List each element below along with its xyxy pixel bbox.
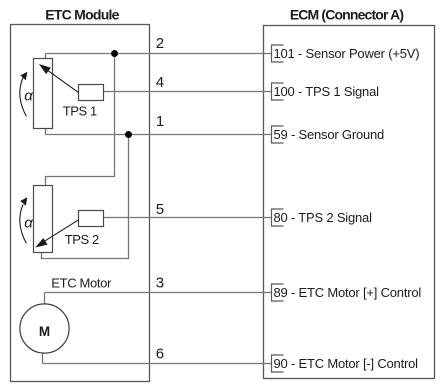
svg-text:4: 4 (156, 74, 164, 91)
svg-text:TPS 1: TPS 1 (63, 103, 97, 118)
svg-text:2: 2 (156, 35, 164, 52)
svg-text:89 - ETC Motor [+] Control: 89 - ETC Motor [+] Control (274, 285, 422, 300)
svg-text:101 - Sensor Power (+5V): 101 - Sensor Power (+5V) (274, 46, 420, 61)
svg-text:100 - TPS 1 Signal: 100 - TPS 1 Signal (274, 84, 380, 99)
svg-text:TPS 2: TPS 2 (65, 232, 99, 247)
svg-text:1: 1 (156, 113, 164, 130)
svg-text:ECM (Connector A): ECM (Connector A) (290, 7, 404, 23)
svg-text:80 - TPS 2 Signal: 80 - TPS 2 Signal (274, 210, 373, 225)
svg-text:ETC Module: ETC Module (45, 7, 119, 23)
svg-text:5: 5 (156, 201, 164, 218)
svg-text:3: 3 (156, 275, 164, 292)
svg-text:6: 6 (156, 346, 164, 363)
svg-text:α: α (24, 87, 33, 104)
svg-text:90 - ETC Motor [-] Control: 90 - ETC Motor [-] Control (274, 356, 419, 371)
svg-text:59 - Sensor Ground: 59 - Sensor Ground (274, 127, 385, 142)
svg-text:ETC Motor: ETC Motor (51, 276, 112, 291)
svg-text:M: M (39, 324, 50, 339)
svg-text:α: α (24, 215, 33, 232)
